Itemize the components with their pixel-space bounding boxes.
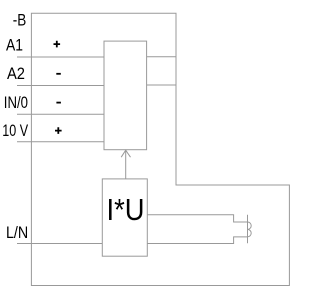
svg-text:A1: A1 — [6, 37, 23, 55]
wire U2 to coil bottom — [147, 237, 247, 244]
svg-text:A2: A2 — [7, 65, 25, 83]
polarity + at A1 — [54, 41, 61, 48]
polarity - at A2 — [56, 73, 61, 75]
svg-text:I*U: I*U — [107, 193, 145, 227]
coil L1 windings — [248, 222, 252, 237]
wire A1 to border — [147, 56, 176, 58]
polarity + at 10V — [55, 127, 62, 134]
svg-text:-B: -B — [13, 12, 26, 30]
polarity - at IN/0 — [56, 102, 61, 104]
block U2 (I*U converter) — [102, 179, 147, 256]
arrow U2 to U1 — [121, 150, 130, 179]
outer enclosure border — [31, 13, 289, 285]
svg-text:10 V: 10 V — [2, 122, 28, 140]
wire A1 — [17, 56, 104, 58]
wire A2 to border — [147, 84, 176, 86]
wire L/N — [17, 243, 102, 245]
svg-text:IN/0: IN/0 — [4, 94, 28, 112]
coil L1 core line — [247, 215, 249, 243]
wire IN/0 — [17, 113, 104, 115]
wire U2 to coil top — [147, 215, 247, 222]
wire A2 — [17, 85, 104, 87]
svg-text:L/N: L/N — [6, 224, 28, 242]
wire 10V — [17, 141, 104, 143]
block U1 (input module) — [104, 41, 147, 150]
